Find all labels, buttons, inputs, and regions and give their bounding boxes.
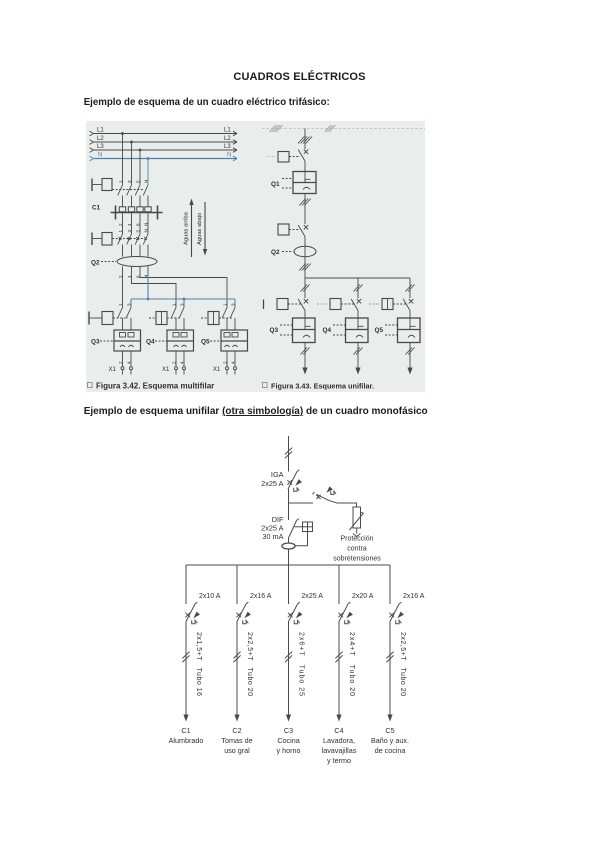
svg-text:5: 5 xyxy=(136,230,141,233)
svg-text:L1: L1 xyxy=(224,128,231,134)
svg-text:Q3: Q3 xyxy=(270,327,279,334)
svg-text:3: 3 xyxy=(127,230,132,233)
svg-text:1: 1 xyxy=(223,303,228,306)
svg-text:Alumbrado: Alumbrado xyxy=(169,736,204,745)
svg-text:C4: C4 xyxy=(334,726,343,735)
svg-text:C3: C3 xyxy=(284,726,293,735)
svg-text:Figura 3.43. Esquema unifilar.: Figura 3.43. Esquema unifilar. xyxy=(271,382,374,391)
svg-text:X1: X1 xyxy=(162,367,170,373)
svg-text:4: 4 xyxy=(231,361,236,364)
svg-text:Lavadora,: Lavadora, xyxy=(323,736,355,745)
svg-text:1: 1 xyxy=(172,303,177,306)
svg-text:2x25 A: 2x25 A xyxy=(261,479,283,488)
svg-text:2: 2 xyxy=(223,361,228,364)
svg-text:Aguas abajo: Aguas abajo xyxy=(197,213,203,245)
svg-text:contra: contra xyxy=(347,546,367,553)
svg-text:Q2: Q2 xyxy=(271,249,280,256)
svg-text:X1: X1 xyxy=(213,367,221,373)
svg-text:sobretensiones: sobretensiones xyxy=(333,556,381,563)
svg-text:N: N xyxy=(144,229,149,232)
svg-text:Cocina: Cocina xyxy=(277,736,299,745)
svg-text:3: 3 xyxy=(180,303,185,306)
svg-text:2x20 A: 2x20 A xyxy=(352,593,374,600)
svg-text:N: N xyxy=(144,180,149,183)
svg-text:L2: L2 xyxy=(97,136,104,142)
svg-text:X1: X1 xyxy=(109,367,117,373)
svg-text:1: 1 xyxy=(118,303,123,306)
svg-text:2x4+T Tubo 20: 2x4+T Tubo 20 xyxy=(348,632,355,696)
svg-text:C1: C1 xyxy=(92,205,101,212)
svg-text:Q3: Q3 xyxy=(91,339,100,346)
svg-text:L1: L1 xyxy=(97,128,104,134)
svg-text:2: 2 xyxy=(172,361,177,364)
svg-text:2x10 A: 2x10 A xyxy=(199,593,221,600)
svg-text:1: 1 xyxy=(118,230,123,233)
svg-text:N: N xyxy=(227,153,231,159)
svg-text:N: N xyxy=(98,153,102,159)
svg-text:Protección: Protección xyxy=(340,536,373,543)
svg-text:Aguas arriba: Aguas arriba xyxy=(184,211,190,245)
svg-text:2x2,5+T Tubo 20: 2x2,5+T Tubo 20 xyxy=(246,632,253,696)
svg-text:4: 4 xyxy=(127,361,132,364)
svg-text:y termo: y termo xyxy=(327,756,351,765)
svg-text:2x2,5+T Tubo 20: 2x2,5+T Tubo 20 xyxy=(399,632,406,696)
svg-text:Q1: Q1 xyxy=(271,181,280,188)
svg-text:2x16 A: 2x16 A xyxy=(250,593,272,600)
svg-text:2x16 A: 2x16 A xyxy=(403,593,425,600)
svg-text:L2: L2 xyxy=(224,136,231,142)
svg-text:3: 3 xyxy=(127,303,132,306)
svg-text:C5: C5 xyxy=(385,726,394,735)
svg-text:y horno: y horno xyxy=(277,746,301,755)
svg-text:Baño y aux.: Baño y aux. xyxy=(371,736,409,745)
svg-text:2: 2 xyxy=(118,361,123,364)
svg-text:Q5: Q5 xyxy=(375,327,384,334)
svg-text:Q4: Q4 xyxy=(323,327,332,334)
svg-text:Q4: Q4 xyxy=(146,339,155,346)
svg-text:3: 3 xyxy=(127,180,132,183)
svg-text:2x25 A: 2x25 A xyxy=(302,593,324,600)
svg-text:5: 5 xyxy=(136,180,141,183)
svg-text:L3: L3 xyxy=(97,144,104,150)
svg-text:Figura 3.42. Esquema multifila: Figura 3.42. Esquema multifilar xyxy=(96,382,214,391)
svg-text:C2: C2 xyxy=(232,726,241,735)
svg-text:3: 3 xyxy=(231,303,236,306)
svg-text:2x1,5+T Tubo 16: 2x1,5+T Tubo 16 xyxy=(195,632,202,696)
svg-text:uso gral: uso gral xyxy=(224,746,250,755)
svg-text:IGA: IGA xyxy=(271,470,284,479)
svg-text:C1: C1 xyxy=(181,726,190,735)
svg-text:L3: L3 xyxy=(224,144,231,150)
svg-text:30 mA: 30 mA xyxy=(262,532,283,541)
svg-text:de cocina: de cocina xyxy=(375,746,406,755)
svg-text:1: 1 xyxy=(118,180,123,183)
svg-text:Q2: Q2 xyxy=(91,260,100,267)
svg-text:Tomas de: Tomas de xyxy=(221,736,252,745)
svg-text:lavavajillas: lavavajillas xyxy=(322,746,357,755)
svg-text:Q5: Q5 xyxy=(201,339,210,346)
svg-text:2x6+T Tubo 25: 2x6+T Tubo 25 xyxy=(298,632,305,696)
svg-text:4: 4 xyxy=(180,361,185,364)
